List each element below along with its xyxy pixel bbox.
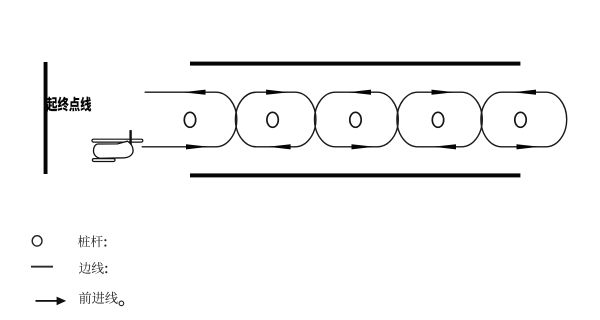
direction arrow, bottom of loop 1, pointing right xyxy=(186,144,209,149)
direction arrow, top of loop 5, pointing left xyxy=(513,90,536,95)
start vehicle (motorcycle top view): handlebar bar xyxy=(92,139,143,142)
direction arrow, bottom of loop 5, pointing right xyxy=(517,144,540,149)
legend: edge line symbol xyxy=(31,266,53,268)
direction arrow, bottom of loop 4, pointing left xyxy=(433,144,456,149)
direction arrow, bottom of loop 2, pointing left xyxy=(268,144,291,149)
legend label 前进线。 xyxy=(79,292,118,304)
legend: pole symbol (circle) xyxy=(32,236,42,246)
start vehicle: rear bar xyxy=(92,159,115,162)
direction arrow, top of loop 3, pointing left xyxy=(348,90,371,95)
label: start-finish line text 起终点线 xyxy=(46,97,91,112)
legend label 边线: xyxy=(79,262,104,274)
direction arrow, top of loop 2, pointing right xyxy=(266,90,289,95)
loop 5 (around pole 5) xyxy=(481,92,567,147)
start-finish line xyxy=(44,62,48,174)
loop 4 (around pole 4) xyxy=(397,92,482,147)
loop 3 (around pole 3) xyxy=(315,92,399,147)
legend: forward direction arrow symbol xyxy=(36,300,58,302)
start vehicle: front fork vertical bar xyxy=(129,130,131,149)
pole P2 xyxy=(267,112,278,127)
loop 2 (around pole 2) xyxy=(235,92,316,147)
pole P3 xyxy=(350,112,361,127)
start vehicle: body xyxy=(93,141,133,158)
direction arrow, top of loop 1, pointing left xyxy=(183,90,206,95)
loop 1 path (open left, around pole 1) xyxy=(142,92,237,147)
pole P4 xyxy=(432,112,443,127)
pole P1 xyxy=(184,112,195,127)
pole P5 xyxy=(515,112,526,127)
direction arrow, bottom of loop 3, pointing right xyxy=(352,144,375,149)
bottom edge line (boundary) xyxy=(190,173,520,177)
direction arrow, top of loop 4, pointing right xyxy=(432,90,455,95)
legend label 桩杆: xyxy=(78,235,103,247)
top edge line (boundary) xyxy=(190,62,520,66)
